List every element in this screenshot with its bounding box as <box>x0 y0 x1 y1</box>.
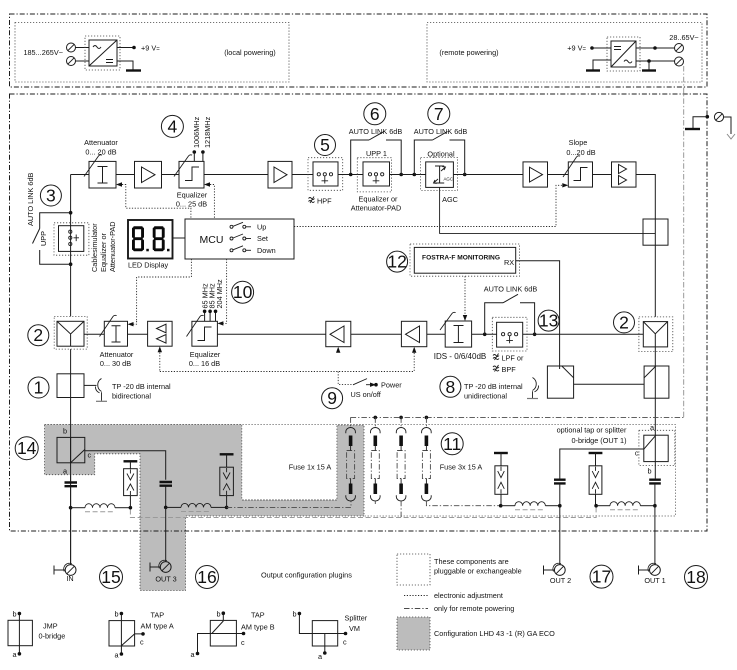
output coupler block <box>644 366 669 398</box>
node <box>129 506 133 510</box>
legend only for remote powering <box>404 608 428 610</box>
dotted control: attenuator + equalizer to MCU <box>122 185 191 220</box>
svg-text:6: 6 <box>370 104 380 124</box>
screw terminal (mains N) <box>67 57 76 66</box>
legend JMP 0-bridge plug <box>8 620 32 645</box>
RX wire to test point <box>516 261 560 366</box>
AGC pick-up coupler box <box>643 219 668 245</box>
OUT1 connector <box>639 566 650 575</box>
svg-text:0-bridge: 0-bridge <box>39 632 66 641</box>
test point connector (top right) <box>714 112 723 121</box>
switch (AUTO LINK over AGC) <box>414 140 464 175</box>
node <box>69 506 73 510</box>
input tap plug (TAP AM) <box>57 437 85 462</box>
svg-text:Attenuator-PAD: Attenuator-PAD <box>108 221 117 272</box>
svg-text:0... 25 dB: 0... 25 dB <box>176 200 207 209</box>
svg-text:Power: Power <box>381 381 402 390</box>
FOSTRA-F MONITORING module <box>410 244 520 276</box>
svg-text:UPP 1: UPP 1 <box>366 149 387 158</box>
wire <box>116 174 135 176</box>
arrow into return amplifier (US on/off) <box>158 346 162 352</box>
svg-text:IDS - 0/6/40dB: IDS - 0/6/40dB <box>434 352 486 361</box>
TP block (monitoring RX test point) <box>547 366 573 398</box>
svg-text:14: 14 <box>17 438 37 458</box>
svg-text:b: b <box>63 427 67 436</box>
inductor (OUT2 powering choke) <box>515 502 545 506</box>
LED display module <box>128 220 173 259</box>
svg-text:Splitter: Splitter <box>345 614 368 623</box>
wire <box>593 174 612 176</box>
screw terminal (remote feed 2) <box>675 57 684 66</box>
arrow down (to external) <box>727 134 735 139</box>
wire <box>204 174 268 176</box>
svg-text:HPF: HPF <box>317 197 332 206</box>
circle 4 <box>161 115 183 137</box>
wire tap c to OUT3 branch <box>85 451 166 480</box>
wire OUT1 down <box>654 506 656 565</box>
capacitor (OUT3 leg) <box>160 482 173 486</box>
svg-text:These components are: These components are <box>434 557 509 566</box>
svg-text:Attenuator-PAD: Attenuator-PAD <box>351 204 402 213</box>
switch Up <box>230 225 233 228</box>
switch Set <box>230 237 233 240</box>
coupler probe (TP bidirectional) <box>95 379 101 401</box>
svg-text:Equalizer or: Equalizer or <box>99 232 108 272</box>
svg-text:bidirectional: bidirectional <box>112 392 151 401</box>
svg-text:JMP: JMP <box>43 622 58 631</box>
dotted control MCU to slope <box>294 185 562 226</box>
wire output diplexer down <box>654 347 656 366</box>
circle 17 <box>590 565 613 588</box>
circle 6 <box>364 103 386 125</box>
svg-text:AGC: AGC <box>444 177 454 182</box>
svg-text:16: 16 <box>197 567 216 587</box>
svg-text:MCU: MCU <box>200 234 224 246</box>
svg-text:5: 5 <box>320 135 330 155</box>
svg-text:b: b <box>292 610 296 619</box>
remote powering link OUT3 to fuse (dash-dot) <box>227 501 351 507</box>
wire OUT3 down <box>165 507 167 561</box>
capacitor (IN leg) <box>65 483 78 487</box>
circle 15 <box>100 566 123 589</box>
wire +9V output <box>117 47 134 49</box>
wire <box>76 47 90 49</box>
return amplifier A4 <box>326 321 351 346</box>
remote powering link to OUT2 branch (dash-dot) <box>426 501 500 506</box>
svg-text:TP -20 dB internal: TP -20 dB internal <box>112 382 171 391</box>
node <box>463 173 467 177</box>
svg-text:Down: Down <box>257 246 276 255</box>
svg-text:electronic adjustment: electronic adjustment <box>434 591 503 600</box>
OUT3 connector <box>150 563 160 572</box>
svg-text:204 MHz: 204 MHz <box>215 279 224 309</box>
arrow into slope (electronic adjustment) <box>562 183 568 187</box>
node +9V (remote) <box>590 46 594 50</box>
switch (AUTO LINK over UPP1) <box>351 140 402 175</box>
surge arrester (OUT3) <box>220 453 234 455</box>
circle 9 <box>322 388 343 409</box>
label HPF with filter icon <box>309 197 315 204</box>
svg-text:c: c <box>140 638 144 647</box>
svg-text:AUTO LINK 6dB: AUTO LINK 6dB <box>26 172 35 226</box>
circle 10 <box>232 281 254 303</box>
svg-text:2: 2 <box>33 325 43 345</box>
AGC module <box>421 157 458 190</box>
power supply U2 (remote, DC/AC) <box>607 37 640 71</box>
svg-text:AM type A: AM type A <box>141 622 174 631</box>
wire <box>128 333 148 335</box>
wire <box>693 117 707 128</box>
svg-text:b: b <box>12 610 16 619</box>
svg-text:3: 3 <box>46 186 56 206</box>
AGC feedback wire <box>440 187 656 233</box>
svg-text:RX: RX <box>504 258 514 267</box>
return amplifier (dual) <box>148 321 173 346</box>
node +9V (local) <box>132 46 136 50</box>
arrow into A4 (US on/off) <box>336 347 340 353</box>
node <box>533 333 537 337</box>
switch (AUTO LINK over LPF/BPF) <box>485 303 535 335</box>
svg-text:VM: VM <box>349 624 360 633</box>
svg-text:8: 8 <box>446 377 456 397</box>
svg-text:Configuration LHD 43 -1 (R) GA: Configuration LHD 43 -1 (R) GA ECO <box>434 629 555 638</box>
svg-text:Slope: Slope <box>569 138 588 147</box>
local powering dotted box <box>15 23 289 83</box>
configuration gray area (Configuration LHD 43-1 GA ECO), left input/OUT3 region <box>45 425 365 591</box>
power supply U1 (local, AC/DC) <box>85 36 120 70</box>
wire to ground (left) <box>593 60 611 70</box>
dotted control MCU to return equalizer <box>224 259 227 323</box>
circle 12 <box>387 251 408 272</box>
fuse F2 <box>400 417 402 427</box>
circle 7 <box>428 103 450 125</box>
LPF/BPF plug-in module <box>492 317 527 351</box>
svg-text:pluggable or exchangeable: pluggable or exchangeable <box>434 567 522 576</box>
node <box>374 416 378 420</box>
wire main output down <box>654 398 656 435</box>
arrow into equalizer (electronic adjustment) <box>204 182 210 186</box>
fuse F1 <box>374 417 376 427</box>
dotted control monitoring to IDS <box>464 276 466 315</box>
ground (local PSU) <box>126 69 141 71</box>
svg-text:only for remote powering: only for remote powering <box>434 604 514 613</box>
pin 85MHz <box>209 312 211 321</box>
wire <box>338 174 363 176</box>
arrow into return attenuator <box>128 322 134 326</box>
svg-text:LED Display: LED Display <box>128 261 168 270</box>
node <box>558 504 562 508</box>
svg-text:1218MHz: 1218MHz <box>203 116 212 148</box>
output stage dual amplifier <box>612 162 637 187</box>
svg-text:b: b <box>216 610 220 619</box>
equalizer (0..25 dB) <box>179 161 204 188</box>
node <box>653 504 657 508</box>
svg-text:12: 12 <box>387 252 406 272</box>
svg-text:Fuse 1x 15 A: Fuse 1x 15 A <box>289 463 332 472</box>
return amplifier A5 <box>401 321 426 346</box>
wire <box>84 333 104 335</box>
wire to ground <box>648 61 650 70</box>
return attenuator (0..30 dB) <box>104 321 127 346</box>
remote powering dotted box <box>427 23 702 83</box>
switch (UPP auto link bypass) <box>40 213 71 265</box>
svg-text:c: c <box>635 449 639 458</box>
arrow into return equalizer <box>217 321 223 325</box>
svg-text:OUT 2: OUT 2 <box>550 576 571 585</box>
node <box>399 416 403 420</box>
UPP plug-in module <box>54 223 89 255</box>
circle 2 (right) <box>614 312 635 333</box>
wire to ground <box>117 61 133 70</box>
circle 3 <box>40 185 61 206</box>
node Power <box>374 383 378 387</box>
arrow into IDS (electronic adjustment) <box>463 315 467 321</box>
MCU box <box>185 219 294 259</box>
diplexer (output) <box>639 317 673 352</box>
wire LED to MCU <box>173 237 186 239</box>
svg-text:Equalizer or: Equalizer or <box>359 195 399 204</box>
wire through coupler <box>654 219 656 317</box>
wire <box>427 333 445 335</box>
svg-text:15: 15 <box>101 567 120 587</box>
screw terminal (mains L) <box>67 43 76 52</box>
gray area dotted border <box>45 425 365 591</box>
legend pluggable box <box>397 554 430 585</box>
svg-text:18: 18 <box>686 567 705 587</box>
return equalizer (0..16 dB) <box>192 321 218 346</box>
svg-text:AUTO LINK 6dB: AUTO LINK 6dB <box>414 127 468 136</box>
node <box>425 416 429 420</box>
fuse F3 <box>425 417 427 427</box>
svg-text:Cablesimulator: Cablesimulator <box>90 223 99 272</box>
wire <box>351 333 402 335</box>
diplexer (input) <box>54 316 87 349</box>
circle 16 <box>196 566 219 589</box>
HPF plug-in module <box>308 158 343 191</box>
svg-text:FOSTRA-F MONITORING: FOSTRA-F MONITORING <box>422 255 500 262</box>
amplifier A1 <box>135 161 162 188</box>
wire <box>292 174 313 176</box>
remote powering rail (dash-dot) <box>351 416 684 418</box>
svg-text:185...265V~: 185...265V~ <box>23 48 63 57</box>
IDS attenuator (0/6/40 dB) <box>445 321 471 347</box>
svg-text:unidirectional: unidirectional <box>464 392 507 401</box>
svg-text:US on/off: US on/off <box>351 390 382 399</box>
svg-text:TAP: TAP <box>251 611 265 620</box>
optional output tap plug (OUT1) <box>639 430 675 465</box>
node <box>413 173 417 177</box>
legend TAP AM type A plug <box>109 621 135 646</box>
dashed link under inductor <box>85 511 115 513</box>
wire to coupler <box>84 384 97 386</box>
node <box>647 59 651 63</box>
surge arrester (IN) <box>124 460 138 462</box>
amplifier A3 <box>523 162 548 187</box>
svg-text:9: 9 <box>327 388 337 408</box>
svg-text:7: 7 <box>434 104 444 124</box>
ground (remote PSU right) <box>642 69 656 71</box>
svg-text:Equalizer: Equalizer <box>190 350 221 359</box>
arrow into attenuator (electronic adjustment) <box>116 182 122 186</box>
wire <box>636 60 675 62</box>
svg-text:Attenuator: Attenuator <box>100 350 134 359</box>
circle 2 (left) <box>28 325 49 346</box>
wire <box>636 47 675 49</box>
inductor (OUT1 powering choke) <box>610 502 640 506</box>
remote powering feed line (dash-dot, down right side) <box>683 66 685 417</box>
ground (test point) <box>685 128 700 130</box>
svg-text:11: 11 <box>443 434 461 454</box>
wire <box>592 47 611 49</box>
legend electronic adjustment <box>404 595 428 597</box>
coupler probe (TP unidirectional) <box>533 378 539 399</box>
node <box>483 333 487 337</box>
wire <box>548 174 569 176</box>
circle 8 <box>440 376 461 397</box>
main input trunk wire (vertical, x=70.6) <box>70 175 72 565</box>
svg-text:BPF: BPF <box>502 365 517 374</box>
svg-text:4: 4 <box>168 116 178 136</box>
svg-text:UPP: UPP <box>39 231 48 246</box>
switch US on/off <box>338 372 352 385</box>
circle 14 <box>15 437 38 460</box>
UPP1 plug-in module <box>357 158 391 192</box>
pin 1006MHz <box>193 153 195 161</box>
svg-text:1006MHz: 1006MHz <box>192 116 201 148</box>
svg-text:OUT 1: OUT 1 <box>644 576 665 585</box>
circle 1 <box>28 377 49 398</box>
legend Splitter VM plug <box>312 621 337 646</box>
ground (remote PSU left) <box>586 69 600 71</box>
legend configuration gray box <box>397 617 430 650</box>
svg-text:28..65V~: 28..65V~ <box>669 33 698 42</box>
dotted control MCU to return attenuator <box>137 259 192 321</box>
svg-text:(local powering): (local powering) <box>224 48 276 57</box>
wire <box>390 174 426 176</box>
attenuator (0..20 dB) <box>89 161 116 188</box>
svg-text:Up: Up <box>257 222 266 231</box>
pin 204MHz <box>215 312 217 321</box>
node <box>594 504 598 508</box>
wire <box>523 333 644 335</box>
node (UPP bypass bottom) <box>69 262 73 266</box>
inductor (OUT3 powering choke) <box>181 503 211 507</box>
node <box>653 46 657 50</box>
circle 11 <box>441 433 463 455</box>
node <box>499 504 503 508</box>
svg-text:13: 13 <box>539 311 558 331</box>
svg-text:0...20 dB: 0...20 dB <box>566 148 595 157</box>
svg-text:TAP: TAP <box>151 611 165 620</box>
legend TAP AM type B plug <box>210 620 236 646</box>
svg-text:AGC: AGC <box>442 195 458 204</box>
top powering band dash-dot frame <box>10 14 708 87</box>
svg-text:AUTO LINK 6dB: AUTO LINK 6dB <box>349 127 403 136</box>
wire to output splitter <box>636 175 655 220</box>
remote powering link (gray dashed) <box>130 508 596 518</box>
fuse F0 (in gray strip) <box>350 417 352 427</box>
wire <box>453 174 523 176</box>
svg-text:Output configuration plugins: Output configuration plugins <box>261 571 352 580</box>
svg-text:17: 17 <box>592 567 611 587</box>
surge arrester (OUT1) <box>589 452 603 454</box>
wire <box>76 60 90 62</box>
wire <box>724 117 731 134</box>
node (UPP bypass top) <box>69 211 73 215</box>
svg-text:Fuse 3x 15 A: Fuse 3x 15 A <box>440 463 483 472</box>
TP block (bidirectional) <box>57 374 84 398</box>
capacitor (OUT1 leg) <box>649 480 661 484</box>
capacitor (OUT2 leg) <box>554 480 566 484</box>
svg-text:2: 2 <box>619 312 629 332</box>
svg-text:b: b <box>114 610 118 619</box>
arrow into A5 (US on/off) <box>412 347 416 353</box>
node <box>349 173 353 177</box>
svg-text:c: c <box>343 638 347 647</box>
dotted control riser <box>159 353 161 372</box>
wire <box>162 174 180 176</box>
OUT2 connector <box>544 566 555 575</box>
svg-text:(remote powering): (remote powering) <box>439 48 498 57</box>
wire <box>217 333 325 335</box>
dotted control: US on/off rail <box>160 371 414 373</box>
circle 18 <box>685 566 708 589</box>
wire row1 start <box>71 174 89 176</box>
svg-text:IN: IN <box>66 574 73 583</box>
inductor (IN powering choke) <box>85 504 115 508</box>
circle 5 <box>315 135 336 156</box>
main diagram dash-dot frame <box>10 94 708 531</box>
surge arrester (OUT2) <box>494 452 508 454</box>
slope equalizer (0..20 dB) <box>568 162 592 187</box>
wire <box>472 333 497 335</box>
wire OUT2 down <box>559 506 561 565</box>
pluggable components dotted outline (bottom section) <box>45 425 676 517</box>
svg-text:c: c <box>241 638 245 647</box>
svg-text:c: c <box>88 451 92 460</box>
wire: pluggable outline bottom edge right part <box>242 499 337 501</box>
svg-text:OUT 3: OUT 3 <box>155 575 176 584</box>
node <box>399 173 403 177</box>
svg-text:b: b <box>648 467 652 476</box>
svg-text:optional tap or splitter: optional tap or splitter <box>557 426 627 435</box>
svg-text:0-bridge (OUT 1): 0-bridge (OUT 1) <box>571 436 626 445</box>
svg-text:0... 16 dB: 0... 16 dB <box>189 359 220 368</box>
circle 13 <box>538 310 559 331</box>
node <box>164 506 168 510</box>
svg-text:AM type B: AM type B <box>241 623 275 632</box>
svg-text:Equalizer: Equalizer <box>177 191 208 200</box>
IN connector <box>54 566 65 575</box>
switch Down <box>230 249 233 252</box>
wire TP to output coupler <box>574 383 645 385</box>
pin 65MHz <box>204 312 206 321</box>
svg-text:10: 10 <box>233 282 253 302</box>
svg-text:LPF or: LPF or <box>502 354 524 363</box>
wire IN down <box>70 508 72 565</box>
svg-text:AUTO LINK 6dB: AUTO LINK 6dB <box>484 285 538 294</box>
svg-text:Attenuator: Attenuator <box>84 138 118 147</box>
amplifier A2 <box>268 161 292 188</box>
pin 1218MHz <box>202 153 204 161</box>
7-segment digit 1 <box>132 226 149 251</box>
label LPF or / BPF with filter icons <box>493 354 499 361</box>
screw terminal (remote feed 1) <box>675 44 684 53</box>
svg-text:Set: Set <box>257 234 268 243</box>
node <box>225 506 229 510</box>
svg-text:TP -20 dB internal: TP -20 dB internal <box>464 382 523 391</box>
svg-text:1: 1 <box>34 378 44 398</box>
